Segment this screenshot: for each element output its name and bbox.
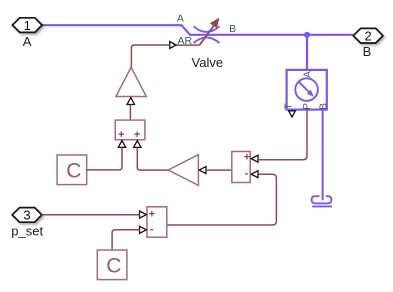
svg-text:p_set: p_set bbox=[11, 223, 43, 238]
gain U4 triangle (points left) bbox=[168, 155, 198, 186]
node junction above gauge bbox=[304, 32, 310, 38]
wire C1 to sum S1 left input bbox=[87, 148, 122, 170]
svg-text:+: + bbox=[134, 129, 140, 141]
svg-text:C: C bbox=[106, 254, 121, 277]
sum S3 minus input arrowhead bbox=[140, 226, 147, 233]
sum S2 block (+ -) flipped bbox=[232, 152, 250, 183]
valve port label A bbox=[177, 13, 184, 25]
sum S2 plus input arrowhead bbox=[251, 155, 258, 162]
gain U4 input arrowhead bbox=[199, 167, 206, 174]
svg-text:+: + bbox=[118, 129, 124, 141]
wire gauge P output to sum S2 plus input bbox=[258, 110, 307, 160]
svg-text:Valve: Valve bbox=[192, 55, 224, 70]
label B (port 2) bbox=[363, 44, 372, 59]
svg-text:AR: AR bbox=[178, 35, 193, 47]
svg-text:B: B bbox=[318, 103, 329, 110]
valve AR input arrowhead bbox=[170, 42, 176, 49]
constant C2 block bbox=[97, 250, 127, 280]
wire sum S1 output up to gain U3 bbox=[129, 105, 131, 120]
valve U1 orifice arcs bbox=[194, 26, 220, 43]
svg-text:C: C bbox=[66, 159, 81, 182]
valve AR stub wire bbox=[176, 44, 200, 46]
wire gauge port B down to reference bbox=[322, 110, 324, 201]
svg-text:A: A bbox=[303, 71, 314, 78]
sum S1 left input arrowhead bbox=[118, 141, 125, 148]
wire gain U3 output to valve AR bbox=[131, 45, 169, 67]
svg-text:3: 3 bbox=[23, 208, 30, 223]
wire sum S2 output to gain U4 bbox=[206, 169, 232, 171]
sum S2 minus input arrowhead bbox=[251, 171, 258, 178]
label A (port 1) bbox=[23, 34, 32, 49]
valve port label AR bbox=[178, 35, 193, 47]
sum S3 block (+ -) bbox=[147, 207, 167, 237]
gauge port label P bbox=[302, 103, 313, 110]
svg-text:-: - bbox=[245, 167, 249, 179]
svg-text:T: T bbox=[284, 103, 295, 109]
sum S1 right input arrowhead bbox=[134, 141, 141, 148]
gauge port label B bbox=[318, 103, 329, 110]
port 1 bbox=[12, 18, 42, 33]
gauge unconnected port T arrowhead bbox=[289, 111, 296, 117]
wire gain U4 output to sum S1 right input bbox=[137, 148, 168, 171]
label Valve bbox=[192, 55, 224, 70]
wire junction down to gauge port A bbox=[306, 35, 308, 70]
port 3 bbox=[12, 208, 42, 223]
wire C2 to sum S3 minus input bbox=[112, 230, 140, 250]
label p_set (port 3) bbox=[11, 223, 43, 238]
port 2 bbox=[353, 28, 383, 43]
wire port 1 to valve A and through to port 2 (gas, purple) bbox=[42, 25, 353, 35]
svg-text:A: A bbox=[177, 13, 184, 25]
sum S1 block (+ +) bbox=[115, 120, 145, 141]
valve control arrow bbox=[199, 19, 218, 46]
svg-text:1: 1 bbox=[24, 18, 31, 33]
wire sum S3 output to sum S2 minus input bbox=[167, 174, 277, 225]
gain U3 input arrowhead bbox=[127, 98, 134, 105]
svg-text:B: B bbox=[363, 44, 372, 59]
gauge port label A bbox=[303, 71, 314, 78]
gain U3 triangle (points up) bbox=[116, 67, 146, 96]
constant C1 block bbox=[57, 155, 87, 185]
svg-text:A: A bbox=[23, 34, 32, 49]
gauge port label T bbox=[284, 103, 295, 109]
wire port 3 to sum S3 plus input bbox=[42, 214, 140, 216]
svg-text:2: 2 bbox=[364, 29, 371, 44]
gauge U2 pressure sensor block bbox=[287, 70, 327, 110]
svg-text:B: B bbox=[229, 23, 236, 35]
svg-text:P: P bbox=[302, 103, 313, 110]
sum S3 plus input arrowhead bbox=[140, 211, 147, 218]
ground reference (gas) bbox=[312, 196, 332, 206]
svg-text:+: + bbox=[244, 152, 250, 164]
valve port label B bbox=[229, 23, 236, 35]
svg-text:+: + bbox=[149, 208, 155, 220]
svg-text:-: - bbox=[150, 223, 154, 235]
